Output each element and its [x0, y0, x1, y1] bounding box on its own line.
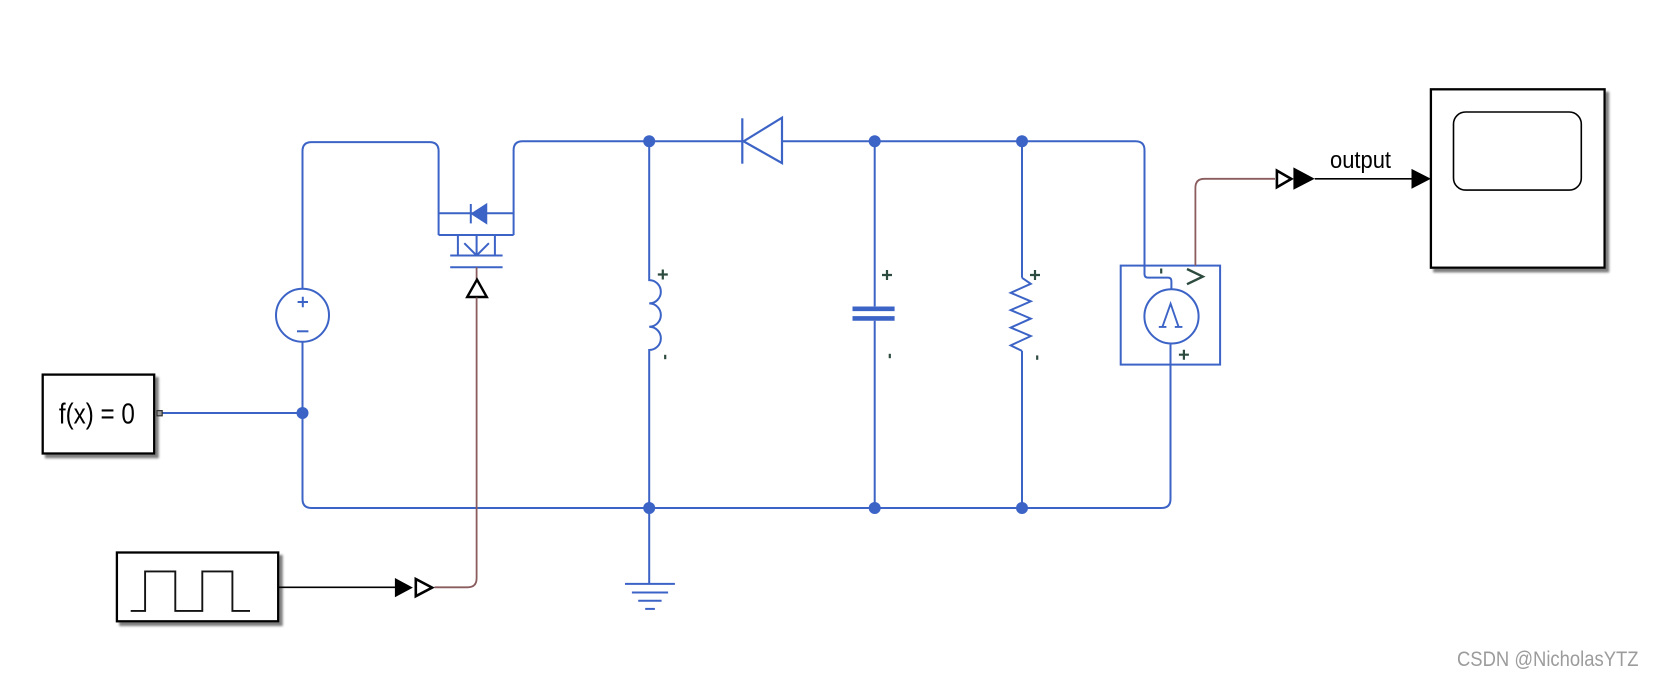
current sensor U1 — [1121, 266, 1220, 365]
wire: pulse output signal — [278, 586, 395, 588]
scope block — [1431, 89, 1605, 267]
capacitor C1 minus label — [889, 354, 891, 358]
resistor R1 — [1011, 278, 1031, 351]
voltage source V1 — [276, 289, 329, 342]
svg-text:f(x) = 0: f(x) = 0 — [59, 399, 135, 431]
node F (bottom capacitor) — [869, 502, 881, 514]
signal line to scope — [1315, 178, 1412, 180]
ground — [625, 584, 675, 609]
wire: source top to MOSFET drain — [303, 142, 439, 289]
svg-text:CSDN @NicholasYTZ: CSDN @NicholasYTZ — [1457, 648, 1639, 671]
current sensor minus label — [1160, 269, 1162, 274]
pulse generator — [117, 553, 278, 622]
wire: sensor PS output (brown) — [1195, 179, 1275, 266]
diode D1 — [742, 118, 782, 164]
wire: MOSFET source up and top bus to sensor — [514, 141, 1172, 289]
inductor L1 minus label — [664, 355, 666, 359]
capacitor C1 plus label — [882, 270, 892, 280]
inductor L1 plus label — [658, 270, 668, 280]
PS-Simulink converter arrows (right) — [1277, 167, 1315, 189]
wire: PS signal pulse to gate (brown) — [435, 298, 477, 588]
wire: gate stub (PS) — [476, 267, 478, 279]
mosfet Q1 — [439, 204, 514, 267]
solver block f(x)=0 — [43, 375, 163, 454]
node E (bottom inductor/ground) — [643, 502, 655, 514]
gate port triangle — [467, 280, 487, 297]
node G (bottom resistor) — [1016, 502, 1028, 514]
capacitor C1 — [853, 309, 895, 319]
wire: capacitor branch — [874, 141, 876, 508]
node B (top capacitor) — [869, 135, 881, 147]
node D (f(x) junction) — [297, 407, 309, 419]
svg-text:output: output — [1330, 147, 1391, 174]
node C (top resistor) — [1016, 135, 1028, 147]
current sensor plus label — [1179, 350, 1189, 360]
Simulink-PS converter arrows (left) — [395, 578, 432, 597]
wire: left bus source bottom to bottom bus to sensor bottom — [303, 342, 1171, 508]
wire: f(x) block to node — [162, 412, 303, 414]
scope input arrowhead — [1412, 169, 1431, 189]
resistor R1 plus label — [1030, 270, 1040, 280]
wire: resistor branch — [1021, 141, 1023, 508]
node A (top inductor) — [643, 135, 655, 147]
current sensor PS out port label — [1187, 269, 1203, 284]
resistor R1 minus label — [1036, 355, 1038, 359]
wire: inductor branch — [649, 141, 661, 584]
